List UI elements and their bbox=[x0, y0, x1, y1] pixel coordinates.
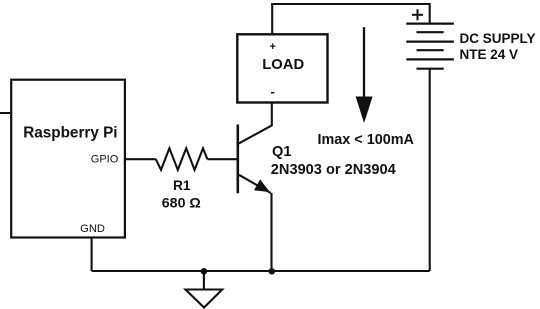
svg-text:+: + bbox=[269, 41, 275, 53]
battery BT1 plus sign bbox=[412, 14, 423, 16]
wire: GND pin down bbox=[91, 238, 93, 272]
wire: left stub into Raspberry Pi bbox=[0, 112, 11, 114]
wire: battery - down right side bbox=[429, 69, 431, 271]
battery BT1 plate short 3 bbox=[417, 68, 444, 70]
svg-text:Imax < 100mA: Imax < 100mA bbox=[318, 132, 415, 148]
ground symbol bbox=[186, 290, 223, 308]
battery BT1 plate long 1 bbox=[406, 23, 454, 25]
wire: resistor to base bbox=[207, 158, 237, 160]
junction node at emitter bbox=[269, 268, 276, 275]
wire: top rail down to battery + bbox=[429, 3, 431, 24]
wire: GPIO to resistor bbox=[125, 158, 156, 160]
svg-text:DC SUPPLY: DC SUPPLY bbox=[460, 31, 536, 46]
wire: bottom rail bbox=[92, 270, 430, 272]
battery BT1 plate short 1 bbox=[417, 31, 444, 33]
svg-text:680 Ω: 680 Ω bbox=[162, 195, 201, 211]
svg-text:2N3903 or 2N3904: 2N3903 or 2N3904 bbox=[271, 162, 397, 178]
svg-text:GPIO: GPIO bbox=[91, 153, 119, 165]
wire: emitter down to bottom rail bbox=[270, 193, 272, 271]
battery BT1 plate long 2 bbox=[406, 40, 454, 42]
emitter arrowhead bbox=[255, 180, 269, 191]
svg-text:R1: R1 bbox=[173, 178, 191, 193]
svg-text:-: - bbox=[271, 84, 275, 99]
transistor Q1 emitter lead with arrow bbox=[239, 175, 271, 193]
junction node at ground tap bbox=[201, 268, 208, 275]
svg-text:Q1: Q1 bbox=[272, 144, 291, 160]
svg-text:LOAD: LOAD bbox=[262, 57, 304, 73]
LOAD box bbox=[237, 34, 327, 102]
svg-text:NTE 24 V: NTE 24 V bbox=[460, 47, 519, 62]
current direction arrow bbox=[363, 27, 365, 100]
battery BT1 plate long 3 bbox=[406, 58, 454, 60]
Raspberry Pi box U2 bbox=[11, 80, 125, 238]
resistor R1 bbox=[156, 148, 208, 170]
wire: top rail bbox=[271, 3, 430, 5]
ground stub wire bbox=[203, 271, 205, 290]
svg-text:GND: GND bbox=[80, 223, 105, 235]
transistor Q1 (NPN) base bar bbox=[237, 125, 240, 194]
wire: LOAD top to top rail bbox=[271, 4, 273, 34]
svg-text:Raspberry Pi: Raspberry Pi bbox=[23, 124, 117, 141]
transistor Q1 collector lead bbox=[239, 103, 272, 143]
battery BT1 plate short 2 bbox=[417, 49, 444, 51]
